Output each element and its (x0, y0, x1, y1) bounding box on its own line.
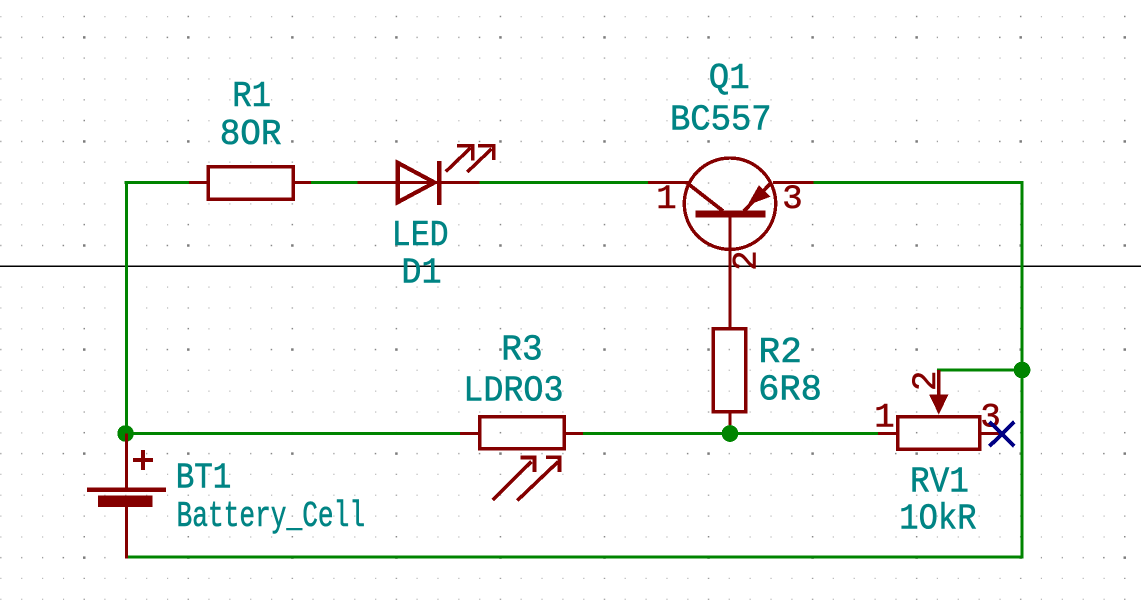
svg-text:LED: LED (392, 215, 449, 256)
wire middle horizontal right segment (583, 432, 878, 435)
svg-text:Battery_Cell: Battery_Cell (177, 496, 366, 537)
svg-text:6R8: 6R8 (758, 369, 822, 410)
potentiometer RV1 (878, 370, 999, 449)
svg-text:R2: R2 (759, 332, 802, 373)
wire Q1 to right corner segment (814, 181, 1024, 184)
sheet boundary line (0, 265, 1141, 267)
junction at R2 bottom (722, 425, 739, 442)
svg-text:R3: R3 (501, 329, 542, 370)
transistor Q1 (648, 158, 814, 327)
R3 light arrows (493, 455, 562, 500)
LED light arrows (446, 144, 495, 172)
svg-text:Q1: Q1 (709, 58, 750, 99)
svg-text:BT1: BT1 (176, 457, 232, 498)
photoresistor R3 (460, 417, 583, 449)
svg-text:1: 1 (874, 399, 894, 437)
LED D1 (358, 161, 480, 205)
svg-text:8OR: 8OR (220, 114, 282, 155)
wire RV1 wiper horizontal (937, 369, 1022, 372)
svg-text:2: 2 (908, 371, 946, 391)
svg-text:3: 3 (782, 181, 802, 219)
junction at battery top (117, 425, 134, 442)
wire R1 to LED segment (311, 181, 358, 184)
no-connect X on RV1 pin 3 (990, 422, 1015, 446)
wire right vertical (1021, 181, 1024, 559)
Q1 emitter arrow (748, 185, 771, 205)
wire top-left horizontal segment (125, 181, 190, 184)
battery BT1 (87, 434, 166, 559)
junction at RV1 wiper wire (1014, 362, 1031, 379)
svg-text:D1: D1 (401, 252, 441, 293)
svg-text:1: 1 (656, 181, 676, 219)
wire left vertical (125, 181, 128, 434)
RV1 wiper arrow (929, 395, 948, 415)
resistor R1 (189, 167, 311, 199)
resistor R2 (713, 329, 746, 427)
svg-text:BC557: BC557 (670, 99, 772, 140)
wire bottom horizontal (126, 556, 1024, 559)
wire middle horizontal left segment (126, 432, 460, 435)
svg-text:RV1: RV1 (910, 461, 969, 502)
wire LED to Q1 segment (480, 181, 649, 184)
svg-text:LDRO3: LDRO3 (463, 370, 563, 411)
svg-text:1OkR: 1OkR (899, 499, 976, 540)
svg-text:2: 2 (729, 250, 767, 270)
svg-text:R1: R1 (232, 76, 271, 117)
